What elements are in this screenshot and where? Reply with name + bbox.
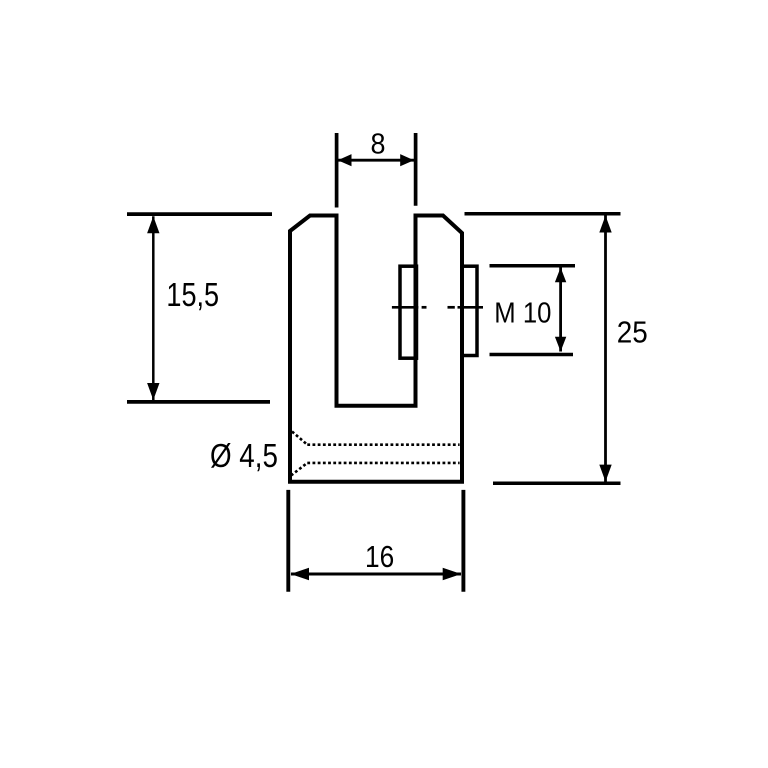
dimension 8: left arrowhead — [338, 154, 352, 166]
dimension 25: dimension line — [604, 216, 607, 482]
svg-text:8: 8 — [371, 129, 386, 161]
dimension 16: dimension line — [291, 573, 461, 576]
svg-text:15,5: 15,5 — [166, 276, 219, 313]
dimension 25: bottom extension line — [493, 482, 621, 486]
hidden cable hole, lower dotted line — [307, 462, 459, 465]
threaded boss, left face rectangle — [400, 266, 417, 358]
dimension 16: right extension line — [461, 490, 465, 592]
threaded boss, right face rectangle — [462, 266, 477, 355]
dimension 8: right arrowhead — [400, 154, 414, 166]
dimension 15,5: dimension line — [152, 216, 155, 400]
dimension M10: dimension line — [559, 268, 562, 352]
hidden cable hole, upper dotted line — [307, 443, 459, 446]
svg-text:M 10: M 10 — [494, 298, 551, 330]
dimension M10: bottom arrowhead — [555, 337, 566, 352]
dimension M10: lower extension line — [490, 353, 574, 357]
dimension M10: top arrowhead — [555, 268, 566, 283]
svg-text:Ø 4,5: Ø 4,5 — [210, 437, 278, 474]
dimension 25: bottom arrowhead — [599, 465, 611, 482]
centerline segment 3 (dot) — [448, 306, 455, 309]
dimension 15,5: bottom extension line — [127, 400, 270, 404]
dimension 25: top arrowhead — [599, 216, 611, 233]
part outline (U-shaped shelf-clamp body with chamfered top corners) — [290, 216, 462, 482]
dimension 8: dimension line — [338, 159, 414, 162]
svg-text:16: 16 — [365, 539, 394, 574]
dimension 16: right arrowhead — [443, 568, 462, 580]
dimension 16: left arrowhead — [291, 568, 310, 580]
countersink lower dotted diagonal — [291, 463, 307, 476]
dimension 15,5: bottom arrowhead — [147, 383, 159, 400]
dimension M10: upper extension line — [490, 264, 576, 268]
centerline segment 2 (dot) — [422, 306, 427, 309]
dimension 15,5: top arrowhead — [147, 216, 159, 233]
dimension 8: left extension line — [335, 133, 339, 208]
dimension 8: right extension line — [414, 133, 418, 206]
dimension 16: left extension line — [286, 490, 290, 592]
centerline segment 4 — [458, 306, 484, 309]
dimension 15,5: top extension line — [127, 212, 272, 216]
svg-text:25: 25 — [617, 315, 648, 350]
countersink upper dotted diagonal — [292, 432, 307, 445]
centerline through threaded boss, segment 1 — [392, 306, 418, 309]
dimension 25: top extension line — [465, 212, 621, 216]
